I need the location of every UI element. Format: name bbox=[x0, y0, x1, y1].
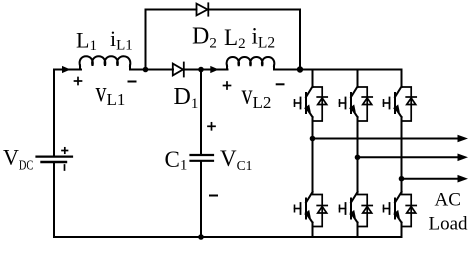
freewheel diode D(Q1) bbox=[313, 87, 328, 121]
svg-text:D1: D1 bbox=[174, 84, 199, 112]
wire: main rail from L2 to inverter top bus bbox=[274, 69, 402, 71]
IGBT Q5 (top, leg3) bbox=[384, 87, 402, 118]
svg-text:D2: D2 bbox=[192, 24, 217, 52]
freewheel diode D(Q5) bbox=[402, 87, 417, 121]
wire: leg2 emitter to bottom rail bbox=[357, 223, 359, 238]
svg-text:L1: L1 bbox=[76, 28, 97, 55]
capacitor C1 top plate bbox=[191, 154, 214, 156]
svg-text:vL1: vL1 bbox=[96, 76, 126, 109]
wire: main rail from D1 to C1 tap bbox=[184, 69, 228, 71]
battery source VDC top plate (+) bbox=[37, 156, 73, 158]
svg-text:VDC: VDC bbox=[3, 145, 33, 173]
phase phase C output line with arrow bbox=[402, 178, 459, 180]
diode D2 bbox=[197, 3, 209, 15]
wire: leg3 mid vertical bbox=[401, 117, 403, 193]
wire: leg3 emitter to bottom rail bbox=[401, 223, 403, 238]
wire: leg1 collector drop from top bus bbox=[312, 70, 314, 88]
freewheel diode D(Q6) bbox=[358, 195, 373, 227]
plus mark of vL1 bbox=[75, 78, 82, 85]
plus mark of vL2 bbox=[224, 82, 231, 89]
capacitor C1 branch upper wire bbox=[200, 70, 202, 155]
IGBT Q4 (bottom, leg1) bbox=[295, 192, 313, 223]
wire: left vertical from main rail down to battery top bbox=[53, 70, 55, 156]
inductor L2 bbox=[227, 57, 275, 70]
minus mark of VC1 bbox=[210, 195, 217, 197]
wire: bypass right vertical down bbox=[299, 10, 301, 70]
IGBT Q1 (top, leg1) bbox=[295, 87, 313, 118]
svg-text:vL2: vL2 bbox=[242, 79, 272, 113]
wire: leg3 collector drop from top bus bbox=[401, 70, 403, 88]
junction node: phase C bbox=[399, 176, 405, 182]
battery plus mark bbox=[62, 148, 68, 153]
wire: leg1 mid vertical bbox=[312, 117, 314, 193]
current arrow iL1 on main rail bbox=[62, 66, 71, 73]
capacitor C1 branch lower wire bbox=[200, 162, 202, 237]
svg-text:AC: AC bbox=[435, 190, 461, 211]
svg-text:L2: L2 bbox=[224, 25, 246, 52]
freewheel diode D(Q4) bbox=[313, 195, 328, 227]
svg-text:iL2: iL2 bbox=[252, 24, 276, 52]
junction node: bypass return / DC link bbox=[297, 66, 303, 72]
junction node: phase A bbox=[310, 136, 316, 142]
current arrow iL2 on main rail bbox=[210, 66, 219, 73]
wire: leg1 emitter to bottom rail bbox=[312, 223, 314, 238]
IGBT Q6 (bottom, leg2) bbox=[340, 192, 358, 223]
wire: left vertical from battery bottom to bottom rail bbox=[53, 163, 55, 238]
capacitor C1 bottom plate bbox=[191, 160, 214, 162]
svg-text:VC1: VC1 bbox=[220, 146, 252, 173]
wire: leg2 mid vertical bbox=[357, 117, 359, 193]
wire: leg2 collector drop from top bus bbox=[357, 70, 359, 88]
svg-text:C1: C1 bbox=[165, 147, 188, 174]
freewheel diode D(Q2) bbox=[402, 195, 417, 227]
diode D1 bbox=[173, 63, 184, 77]
battery source VDC bottom plate (-) bbox=[42, 161, 67, 163]
phase phase A output line with arrow bbox=[313, 138, 459, 140]
wire: main rail segment from left corner to L1 bbox=[54, 69, 81, 71]
junction node: bypass branch tap after L1 bbox=[143, 67, 149, 73]
plus mark of VC1 bbox=[208, 123, 215, 130]
phase phase B output line with arrow bbox=[358, 156, 459, 158]
IGBT Q3 (top, leg2) bbox=[340, 87, 358, 118]
inductor L1 bbox=[80, 56, 131, 69]
minus mark of vL2 bbox=[277, 83, 284, 85]
wire: main rail from L1 to diode D1 bbox=[130, 69, 173, 71]
wire: bypass left vertical up bbox=[145, 10, 147, 70]
minus mark of vL1 bbox=[129, 81, 136, 83]
wire: bottom rail bbox=[54, 236, 402, 238]
junction node: C1 top tap bbox=[198, 67, 204, 73]
svg-text:Load: Load bbox=[429, 214, 469, 235]
wire: bypass top horizontal left of D2 bbox=[146, 9, 197, 11]
battery minus mark bbox=[64, 165, 66, 170]
junction node: phase B bbox=[355, 155, 361, 161]
wire: bypass top horizontal right of D2 bbox=[208, 9, 300, 11]
svg-text:iL1: iL1 bbox=[110, 26, 133, 54]
freewheel diode D(Q3) bbox=[358, 87, 373, 121]
IGBT Q2 (bottom, leg3) bbox=[384, 192, 402, 223]
junction node: C1 bottom on bottom rail bbox=[198, 234, 204, 240]
